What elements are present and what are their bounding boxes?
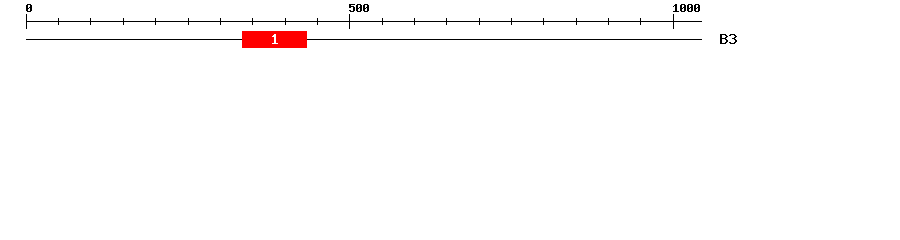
label 500	[349, 4, 369, 12]
minor tick 950	[640, 18, 641, 25]
minor tick 750	[511, 18, 512, 25]
minor tick 350	[252, 18, 253, 25]
track line	[26, 39, 702, 40]
track label B3	[720, 34, 737, 44]
minor tick 700	[479, 18, 480, 25]
minor tick 200	[155, 18, 156, 25]
major tick 1000	[673, 14, 674, 29]
minor tick 650	[446, 18, 447, 25]
minor tick 300	[220, 18, 221, 25]
major tick 0	[26, 14, 27, 29]
minor tick 250	[188, 18, 189, 25]
major tick 500	[349, 14, 350, 29]
label 0	[26, 4, 32, 12]
label 1000	[673, 4, 700, 12]
minor tick 800	[543, 18, 544, 25]
feature box label 1	[272, 34, 278, 44]
minor tick 50	[58, 18, 59, 25]
ruler axis line	[26, 21, 702, 22]
background	[0, 0, 900, 58]
minor tick 100	[90, 18, 91, 25]
minor tick 850	[576, 18, 577, 25]
minor tick 450	[317, 18, 318, 25]
minor tick 550	[382, 18, 383, 25]
minor tick 600	[414, 18, 415, 25]
feature box 1	[242, 31, 307, 48]
minor tick 150	[123, 18, 124, 25]
minor tick 900	[608, 18, 609, 25]
minor tick 400	[285, 18, 286, 25]
